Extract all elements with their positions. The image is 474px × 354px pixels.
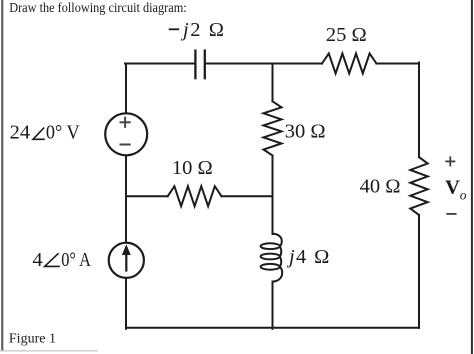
inductor L bottom hook	[273, 267, 283, 282]
svg-text:40 Ω: 40 Ω	[360, 176, 401, 198]
current source arrow head	[122, 244, 131, 255]
wire: top horizontal left segment to capacitor	[125, 63, 194, 65]
bottom faint rule	[0, 350, 98, 351]
output voltage minus sign	[446, 213, 456, 215]
wire: left branch below current source	[125, 279, 127, 329]
voltage source minus sign	[120, 144, 131, 146]
wire: middle branch top vertical	[272, 64, 274, 102]
resistor R10 10ohm zigzag	[168, 186, 222, 206]
wire: middle horizontal right segment	[222, 195, 273, 197]
svg-text:0° V: 0° V	[46, 122, 80, 144]
voltage source VS circle	[105, 113, 147, 155]
wire: middle branch between 30ohm and inductor	[272, 156, 274, 235]
wire: right branch lower vertical	[418, 215, 420, 328]
wire: bottom horizontal	[126, 327, 419, 329]
label 4 angle 0 A : angle symbol	[45, 253, 60, 266]
capacitor C left plate	[194, 51, 196, 79]
svg-text:0° A: 0° A	[61, 249, 91, 271]
svg-text:V: V	[445, 177, 460, 199]
resistor R40 40ohm zigzag	[410, 157, 427, 215]
svg-text:o: o	[460, 187, 467, 202]
inductor L right connector arc 2	[280, 257, 281, 267]
voltage source plus sign	[120, 117, 131, 128]
wire: middle branch below inductor	[272, 282, 274, 329]
wire: left branch between voltage source and current source	[125, 156, 127, 242]
inductor L loop 1	[261, 243, 280, 249]
wire: top horizontal right segment to right corner	[376, 63, 419, 65]
inductor L j4ohm top hook	[273, 234, 282, 247]
inductor L right connector arc 1	[280, 246, 281, 256]
wire: top horizontal between capacitor and 25 ohm resistor	[206, 63, 322, 65]
current source CS circle	[109, 243, 144, 278]
svg-text:j2 Ω: j2 Ω	[180, 19, 224, 41]
capacitor C right plate	[204, 51, 206, 79]
wire: right branch upper vertical	[418, 63, 420, 158]
resistor R30 30ohm zigzag	[264, 101, 282, 155]
current source arrow shaft	[125, 253, 127, 272]
label 24 angle 0 V : angle symbol	[33, 128, 45, 140]
right page border	[471, 0, 473, 354]
svg-text:24: 24	[10, 122, 31, 144]
svg-text:10 Ω: 10 Ω	[172, 157, 213, 179]
wire: middle horizontal left segment	[126, 195, 168, 197]
label -j2 ohm minus sign	[169, 28, 180, 30]
inductor L loop 2	[261, 254, 280, 260]
svg-text:j4 Ω: j4 Ω	[286, 246, 329, 268]
svg-text:Draw the following circuit dia: Draw the following circuit diagram:	[9, 1, 187, 16]
svg-text:Figure 1: Figure 1	[9, 332, 56, 347]
left page border	[1, 0, 3, 351]
output voltage plus sign	[445, 156, 455, 166]
wire: top-left vertical from top wire down to voltage source	[125, 64, 127, 113]
resistor R25 25ohm zigzag	[322, 54, 376, 74]
svg-text:4: 4	[32, 249, 42, 271]
inductor L loop 3	[261, 264, 280, 270]
svg-text:25 Ω: 25 Ω	[326, 24, 367, 46]
svg-text:30 Ω: 30 Ω	[285, 121, 326, 143]
